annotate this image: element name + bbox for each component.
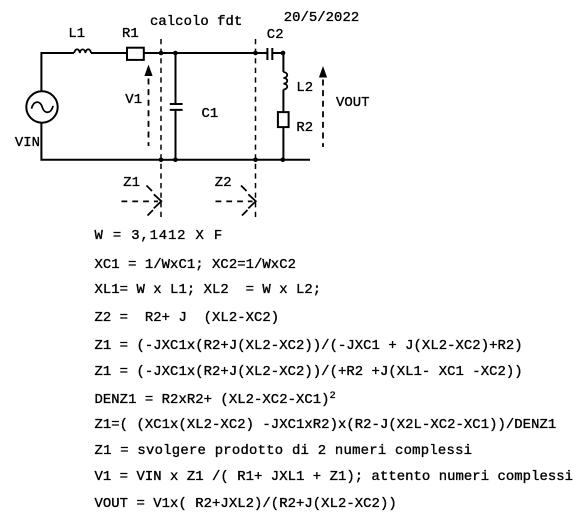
inductor L1 <box>74 49 91 53</box>
wire bottom node B to node C <box>175 159 256 161</box>
arrow VOUT <box>319 66 327 147</box>
equation line 5 <box>95 339 523 353</box>
wire R2 to bottom <box>282 127 284 160</box>
title calcolo fdt <box>150 15 242 29</box>
resistor R2 <box>278 112 289 127</box>
resistor R1 <box>127 48 144 60</box>
capacitor C1 branch wire top <box>175 53 177 103</box>
wire C2 to node D <box>273 53 284 72</box>
wire bottom node A to node B <box>161 159 175 161</box>
equation line 9 <box>95 444 473 458</box>
section line Z1 <box>160 39 162 221</box>
label C1 <box>202 107 219 121</box>
junction bottom node D <box>281 158 286 163</box>
label Z2 <box>215 176 232 190</box>
wire node C to C2 <box>256 52 268 54</box>
equation line 6 <box>95 365 523 379</box>
pointer Z1 <box>122 186 162 216</box>
wire L1 to R1 <box>91 52 127 54</box>
junction top node A <box>159 51 164 56</box>
sine symbol <box>32 102 54 112</box>
label VIN <box>15 136 40 150</box>
equation line 4 <box>95 311 280 325</box>
capacitor C2 <box>267 48 272 60</box>
capacitor C1 branch wire bottom <box>175 111 177 160</box>
equation line 3 <box>95 283 322 297</box>
equation line 7 <box>95 390 336 407</box>
wire VIN top lead <box>41 53 74 91</box>
voltage source VIN <box>26 91 57 122</box>
wire bottom node C to node D <box>256 159 284 161</box>
capacitor C1 <box>170 104 183 110</box>
wire R1 to node A <box>144 52 161 54</box>
pointer Z2 <box>216 186 256 216</box>
label L1 <box>68 27 85 41</box>
equation line 10 <box>95 470 574 484</box>
wire node B to node C <box>175 52 256 54</box>
label Z1 <box>123 176 140 190</box>
wire node A to node B <box>161 52 175 54</box>
wire VIN bottom lead <box>41 123 161 160</box>
junction bottom node C <box>253 158 258 163</box>
junction top node B <box>173 51 178 56</box>
label V1 <box>125 93 142 107</box>
label L2 <box>296 81 313 95</box>
equation line 8 <box>95 418 557 432</box>
inductor L2 <box>283 72 287 89</box>
label C2 <box>267 28 284 42</box>
arrow V1 <box>144 65 152 147</box>
date 20/5/2022 <box>284 11 360 25</box>
label VOUT <box>336 96 370 110</box>
section line Z2 <box>255 39 257 221</box>
junction bottom node B <box>173 158 178 163</box>
wire L2 to R2 <box>282 90 284 113</box>
equation line 11 <box>95 497 397 511</box>
junction top node C <box>253 51 258 56</box>
junction bottom node A <box>159 158 164 163</box>
wire bottom right stub <box>283 159 310 161</box>
equation line 2 <box>95 258 297 272</box>
equation line 1 <box>95 229 224 243</box>
label R2 <box>296 121 313 135</box>
junction top node D <box>281 51 286 56</box>
label R1 <box>122 27 139 41</box>
